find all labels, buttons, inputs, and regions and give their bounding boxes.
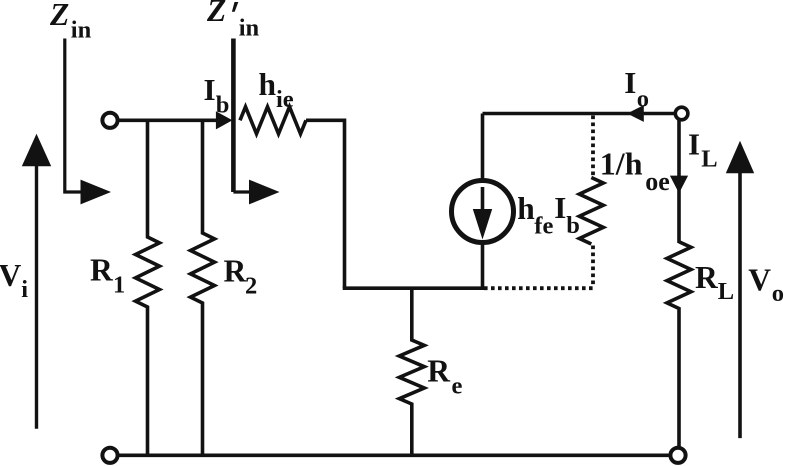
current arrow IL (arrowhead pointing down): [670, 176, 688, 194]
label Re: [427, 354, 462, 400]
current arrow Io (arrowhead pointing left): [627, 105, 644, 122]
svg-text:e: e: [452, 373, 463, 400]
svg-text:1/h: 1/h: [600, 146, 643, 182]
label R2: [224, 254, 258, 300]
wire current source bottom to emitter node: [481, 241, 485, 290]
label Ib: [204, 72, 230, 119]
terminal TL (input top): [102, 113, 117, 128]
label Vi: [0, 258, 28, 303]
label Vo: [748, 263, 784, 308]
svg-text:R: R: [224, 254, 248, 289]
svg-text:oe: oe: [645, 167, 670, 196]
resistor RL: [667, 242, 691, 448]
label hie: [259, 67, 294, 113]
svg-text:R: R: [427, 354, 451, 389]
wire top-left from TL terminal to Ib arrow: [118, 119, 218, 123]
svg-text:V: V: [0, 258, 22, 293]
voltage arrow Vo: [726, 141, 754, 438]
svg-text:I: I: [624, 65, 636, 100]
label Zin: [49, 0, 92, 44]
wire emitter node horizontal: [343, 286, 483, 290]
label 1/hoe: [600, 146, 670, 196]
wire collector top (current source to top wire): [481, 114, 485, 183]
svg-text:1: 1: [113, 271, 125, 298]
label Io: [624, 65, 649, 112]
label RL: [695, 260, 734, 305]
svg-text:I: I: [554, 190, 566, 225]
label hfe Ib: [517, 190, 580, 239]
svg-text:L: L: [718, 278, 734, 305]
wire from hie to corner, down to emitter node: [306, 120, 345, 288]
svg-text:Z: Z: [49, 0, 69, 32]
terminal BR (output bottom): [670, 448, 685, 463]
wire top-right (current source to TR terminal): [483, 112, 676, 116]
svg-text:ie: ie: [276, 86, 294, 113]
label Z'in: [206, 0, 260, 41]
svg-text:o: o: [637, 85, 649, 112]
svg-text:Z: Z: [206, 0, 226, 28]
svg-text:in: in: [71, 17, 92, 44]
terminal BL (input bottom): [102, 448, 117, 463]
svg-text:L: L: [701, 146, 717, 173]
svg-text:o: o: [772, 280, 784, 307]
svg-text:V: V: [748, 263, 771, 298]
resistor R1: [136, 120, 160, 455]
wire right column top (TR terminal to RL): [677, 120, 681, 243]
svg-text:h: h: [517, 191, 535, 226]
svg-text:R: R: [90, 252, 114, 287]
svg-text:I: I: [204, 72, 216, 107]
resistor Re: [399, 288, 424, 455]
svg-text:R: R: [695, 260, 719, 295]
terminal TR (output top): [675, 107, 688, 120]
resistor R2: [191, 120, 215, 455]
label R1: [90, 252, 125, 298]
current arrow Ib (arrowhead on wire): [216, 111, 233, 129]
svg-text:2: 2: [245, 273, 257, 300]
resistor 1/hoe (dashed connections): [484, 116, 603, 289]
impedance arrow Z'in (vertical line through wire + bent arrow): [233, 39, 279, 205]
label IL: [688, 127, 718, 173]
svg-text:b: b: [216, 92, 230, 119]
svg-text:I: I: [688, 127, 700, 162]
voltage arrow Vi: [22, 134, 51, 429]
current source U1 (hfe Ib): [452, 181, 514, 243]
svg-text:in: in: [239, 14, 260, 41]
svg-text:fe: fe: [534, 212, 553, 239]
svg-text:h: h: [259, 67, 277, 102]
svg-text:i: i: [21, 276, 28, 303]
resistor hie (horizontal): [240, 107, 306, 134]
wire bottom (BL to BR): [118, 453, 670, 457]
impedance arrow Zin (bent arrow): [65, 39, 111, 205]
